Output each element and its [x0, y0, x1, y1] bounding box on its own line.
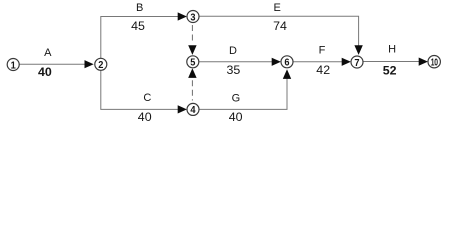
svg-text:E: E	[274, 2, 281, 14]
svg-text:40: 40	[229, 110, 243, 124]
svg-text:B: B	[136, 2, 143, 14]
svg-text:4: 4	[190, 105, 196, 117]
svg-text:5: 5	[190, 57, 196, 69]
svg-text:A: A	[44, 47, 52, 59]
svg-text:2: 2	[98, 60, 104, 72]
svg-text:74: 74	[273, 19, 287, 33]
svg-text:6: 6	[284, 57, 290, 69]
svg-text:42: 42	[316, 63, 330, 77]
svg-text:52: 52	[383, 63, 397, 77]
svg-text:G: G	[232, 92, 241, 104]
svg-text:40: 40	[138, 110, 152, 124]
svg-text:D: D	[229, 45, 237, 57]
svg-text:F: F	[319, 45, 326, 57]
svg-text:1: 1	[11, 60, 17, 72]
svg-text:35: 35	[227, 63, 241, 77]
svg-text:45: 45	[131, 19, 145, 33]
svg-text:7: 7	[354, 57, 360, 69]
svg-text:10: 10	[431, 56, 438, 68]
svg-text:H: H	[388, 43, 396, 55]
svg-text:40: 40	[38, 65, 52, 79]
svg-text:C: C	[143, 92, 151, 104]
svg-text:3: 3	[190, 12, 196, 24]
